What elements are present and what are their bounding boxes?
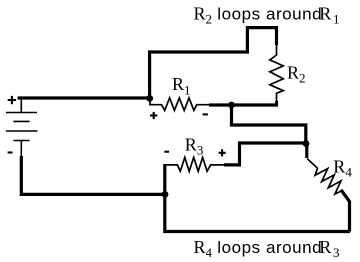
wire R4 bottom lead corner <box>341 190 350 232</box>
node A junction dot <box>146 95 153 102</box>
wire top loop from node A over R1 to R2 top <box>150 28 277 99</box>
wire R1 right to node B <box>209 103 232 106</box>
wire battery minus to node D <box>21 156 165 194</box>
R3 minus polarity <box>164 151 169 153</box>
svg-text:R2: R2 <box>287 62 306 85</box>
battery B1 plate bottom short <box>13 140 29 142</box>
battery B1 plate long <box>6 130 38 132</box>
svg-text:R3: R3 <box>185 134 204 157</box>
node B junction dot <box>228 102 235 109</box>
svg-text:R1: R1 <box>172 74 191 97</box>
R3 plus polarity <box>219 149 226 156</box>
wire battery plus to node A <box>18 96 151 99</box>
battery bottom lead <box>20 141 22 158</box>
node C junction dot <box>303 140 310 147</box>
resistor R3 <box>165 157 225 171</box>
wire node C down to R4 <box>305 142 308 158</box>
battery minus label <box>8 151 13 153</box>
wire node B down and across to node C <box>232 105 306 144</box>
resistor R4 <box>307 159 341 195</box>
battery plus label <box>8 96 16 104</box>
svg-text:R2 loops aroundR1: R2 loops aroundR1 <box>194 3 340 26</box>
node D junction dot <box>162 191 169 198</box>
resistor R2 <box>270 44 284 104</box>
wire node B to R2 bottom <box>232 103 279 106</box>
svg-text:R4: R4 <box>333 156 352 179</box>
R2 bottom lead stub <box>275 101 278 105</box>
battery B1 plate short <box>13 120 29 122</box>
R1 plus polarity <box>150 112 157 119</box>
wire bottom loop under R3 back to node D <box>165 194 350 232</box>
resistor R1 <box>150 98 211 111</box>
battery top lead <box>20 98 22 113</box>
battery B1 plate top long <box>6 112 37 114</box>
R1 minus polarity <box>203 113 208 115</box>
wire R3 left down to node D <box>163 164 166 195</box>
svg-text:R4 loops aroundR3: R4 loops aroundR3 <box>194 237 340 260</box>
wire node C to R3 right (positive) terminal <box>224 143 306 165</box>
